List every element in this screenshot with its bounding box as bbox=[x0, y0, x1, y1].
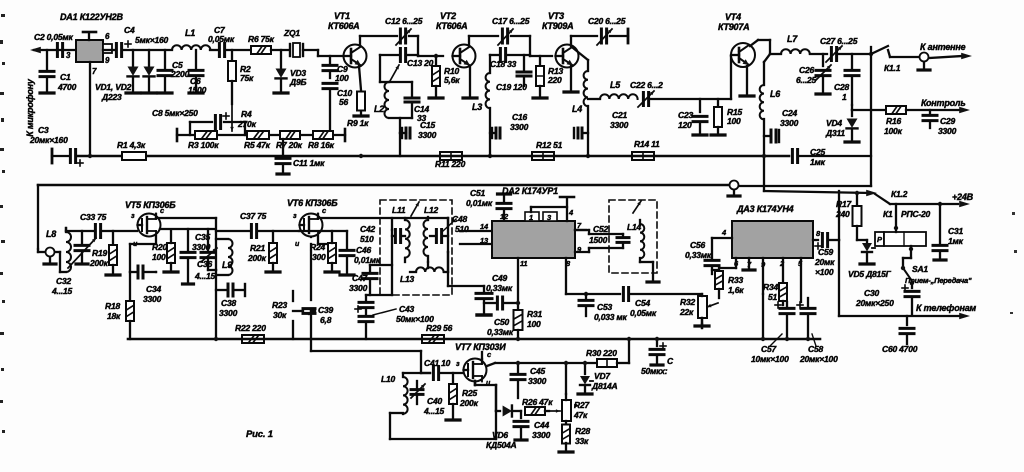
wire VT3 collector bbox=[571, 36, 597, 46]
resistor R32 bbox=[698, 296, 707, 318]
resistor R30 bbox=[597, 359, 617, 367]
resistor R10 bbox=[435, 56, 437, 64]
svg-text:С19 120: С19 120 bbox=[496, 82, 527, 92]
svg-text:3300: 3300 bbox=[610, 120, 629, 130]
wire VT5 source to R18 bbox=[129, 272, 131, 300]
svg-text:8: 8 bbox=[816, 229, 821, 238]
capacitor C18 bbox=[490, 54, 499, 56]
svg-text:6: 6 bbox=[105, 32, 110, 41]
wire C17 to VT3 base bbox=[511, 36, 552, 56]
wire C25 to K1 drop bbox=[800, 155, 871, 157]
svg-text:С20 6...25: С20 6...25 bbox=[588, 16, 626, 26]
capacitor C20 bbox=[600, 29, 603, 43]
svg-text:1,6к: 1,6к bbox=[728, 285, 744, 295]
svg-text:20мк×160: 20мк×160 bbox=[29, 135, 68, 145]
wire ZQ1 to VT1 base bbox=[303, 50, 344, 56]
capacitor C44 bbox=[520, 411, 522, 418]
capacitor C22 bbox=[642, 93, 645, 106]
svg-text:з: з bbox=[131, 213, 135, 220]
resistor R22 bbox=[242, 335, 264, 343]
svg-text:4: 4 bbox=[721, 228, 727, 237]
svg-text:100: 100 bbox=[335, 73, 349, 83]
svg-text:R4: R4 bbox=[241, 109, 252, 119]
wire K1.1 down to K1.2 bbox=[870, 47, 872, 186]
svg-text:Прием-„Передача": Прием-„Передача" bbox=[905, 276, 972, 285]
wire DA1 output bbox=[103, 49, 172, 51]
inductor L14 bbox=[640, 224, 644, 258]
svg-text:R3 100к: R3 100к bbox=[188, 140, 219, 150]
svg-text:VT1: VT1 bbox=[334, 11, 350, 21]
terminal К антенне bbox=[961, 53, 972, 60]
diode VD7 bbox=[584, 363, 586, 374]
svg-text:3: 3 bbox=[66, 51, 71, 60]
svg-text:R14 11: R14 11 bbox=[634, 139, 660, 149]
svg-text:R6 75к: R6 75к bbox=[248, 34, 275, 44]
wire VT1 collector bbox=[360, 36, 397, 46]
wire R32 down bbox=[701, 324, 703, 328]
svg-text:з: з bbox=[456, 361, 460, 368]
capacitor C14 bbox=[405, 97, 419, 100]
junction +24 C31 bbox=[938, 202, 942, 206]
resistor R21 bbox=[272, 231, 274, 242]
wire VT6 source to R23 bbox=[310, 237, 312, 300]
capacitor C15 bbox=[399, 118, 401, 133]
wire C39 node down bbox=[310, 311, 312, 351]
svg-text:К антенне: К антенне bbox=[920, 42, 966, 52]
capacitor C56 bbox=[711, 238, 713, 258]
tuning arrow L11 L12 bbox=[411, 202, 419, 216]
svg-text:4: 4 bbox=[568, 208, 574, 217]
svg-text:R19: R19 bbox=[92, 248, 107, 258]
svg-text:L12: L12 bbox=[424, 205, 439, 215]
svg-text:R5 47к: R5 47к bbox=[244, 140, 271, 150]
svg-text:L9: L9 bbox=[222, 260, 232, 270]
svg-text:L5: L5 bbox=[610, 80, 621, 90]
crystal ZQ1 bbox=[289, 44, 291, 56]
wire VT5 gate2 bbox=[160, 228, 214, 230]
svg-text:3300: 3300 bbox=[143, 294, 162, 304]
svg-text:R12 51: R12 51 bbox=[536, 140, 563, 150]
capacitor C48 bbox=[430, 235, 434, 237]
diode VD2 bbox=[148, 50, 150, 66]
svg-text:С50: С50 bbox=[494, 317, 509, 327]
resistor R12 bbox=[532, 152, 554, 160]
wire C59 riser bbox=[838, 191, 840, 240]
jack L8 input bbox=[46, 248, 55, 257]
wire VT7 drain bbox=[481, 352, 483, 363]
shield box L14 bbox=[609, 200, 657, 273]
svg-text:С12 6...25: С12 6...25 bbox=[385, 16, 423, 26]
resistor R16 bbox=[886, 106, 906, 114]
wire relay to SA1 bbox=[903, 246, 911, 268]
svg-text:240: 240 bbox=[835, 209, 850, 219]
capacitor C58 bbox=[797, 304, 803, 306]
svg-text:VT5 КП306Б: VT5 КП306Б bbox=[125, 200, 176, 210]
svg-text:VD6: VD6 bbox=[492, 430, 508, 440]
svg-text:R33: R33 bbox=[728, 275, 743, 285]
transistor VT3 bbox=[556, 45, 579, 68]
ground VT3 emitter bbox=[564, 90, 578, 93]
svg-text:L7: L7 bbox=[787, 34, 798, 44]
diode VD4 bbox=[851, 110, 853, 116]
svg-text:С17 6...25: С17 6...25 bbox=[492, 16, 530, 26]
svg-text:С11 1мк: С11 1мк bbox=[293, 158, 325, 168]
resistor R27 bbox=[562, 400, 571, 421]
svg-text:VT2: VT2 bbox=[440, 11, 456, 21]
svg-text:5,6к: 5,6к bbox=[444, 75, 460, 85]
capacitor C5 bbox=[164, 50, 166, 69]
svg-text:DA1 К122УН2В: DA1 К122УН2В bbox=[60, 12, 123, 22]
svg-text:VT6 КП306Б: VT6 КП306Б bbox=[287, 198, 338, 208]
svg-text:С16: С16 bbox=[512, 112, 527, 122]
svg-text:R23: R23 bbox=[272, 300, 287, 310]
wire VT4 emitter bbox=[746, 66, 748, 94]
svg-text:220: 220 bbox=[547, 75, 562, 85]
svg-text:Д223: Д223 bbox=[101, 92, 122, 102]
svg-text:3300: 3300 bbox=[418, 130, 437, 140]
variable capacitor C36 bbox=[207, 229, 209, 251]
svg-text:100: 100 bbox=[152, 252, 166, 262]
svg-text:КТ606А: КТ606А bbox=[328, 21, 359, 31]
capacitor C41 bbox=[432, 367, 435, 380]
wire pin8 down bbox=[565, 258, 567, 294]
wire VT6 drain bbox=[318, 214, 448, 218]
capacitor C10 bbox=[323, 82, 337, 85]
junction R27 drain bbox=[564, 361, 568, 365]
resistor R23 bbox=[292, 291, 294, 301]
svg-text:R31: R31 bbox=[527, 309, 542, 319]
junction C55 bus bbox=[655, 337, 659, 341]
wire to antenna bbox=[888, 50, 918, 57]
op-amp U DA1 bbox=[76, 40, 103, 62]
resistor R29 bbox=[422, 335, 444, 343]
capacitor C16 bbox=[490, 132, 494, 134]
svg-text:200к: 200к bbox=[89, 258, 109, 268]
capacitor C53 bbox=[584, 292, 588, 296]
wire C12 to VT2 base bbox=[409, 36, 443, 56]
wire main bus bbox=[78, 155, 440, 158]
wire R27 top bbox=[565, 363, 567, 394]
pin 4 DA2 bbox=[530, 207, 532, 212]
wire C7 to R6 bbox=[227, 49, 250, 51]
variable capacitor C40 bbox=[411, 388, 423, 391]
svg-text:С54: С54 bbox=[635, 298, 650, 308]
capacitor C51 bbox=[498, 192, 511, 195]
svg-text:С48: С48 bbox=[452, 214, 467, 224]
svg-text:18к: 18к bbox=[107, 311, 121, 321]
capacitor C34 bbox=[130, 271, 136, 273]
wire antenna arrow bbox=[929, 56, 962, 58]
resistor R11 bbox=[440, 152, 462, 160]
svg-text:L10: L10 bbox=[381, 374, 396, 384]
svg-text:33к: 33к bbox=[575, 436, 589, 446]
capacitor C28 bbox=[851, 54, 853, 68]
svg-text:VT3: VT3 bbox=[548, 11, 564, 21]
svg-text:R11 220: R11 220 bbox=[435, 159, 466, 169]
svg-text:КД504А: КД504А bbox=[486, 440, 517, 450]
svg-text:3300: 3300 bbox=[938, 126, 957, 136]
wire C28 to R16 bbox=[852, 105, 884, 110]
svg-text:С26: С26 bbox=[799, 65, 814, 75]
svg-text:L4: L4 bbox=[572, 104, 582, 114]
svg-text:6...25: 6...25 bbox=[796, 75, 817, 85]
paper specks right bbox=[574, 212, 1017, 407]
junction VT2 base bbox=[434, 54, 438, 58]
capacitor C29 bbox=[929, 110, 931, 113]
wire C33 to VT5 gate bbox=[103, 230, 137, 232]
transistor VT1 bbox=[344, 45, 367, 68]
svg-text:1500: 1500 bbox=[188, 85, 207, 95]
svg-text:5мк×160: 5мк×160 bbox=[135, 35, 169, 45]
inductor L3 bbox=[489, 55, 491, 73]
inductor L13 bbox=[416, 267, 444, 272]
wire L10 top bbox=[403, 372, 430, 374]
audio amp U DA3 bbox=[732, 221, 813, 258]
inductor L2 bbox=[379, 55, 381, 82]
transistor VT2 bbox=[453, 45, 476, 68]
svg-text:4...15: 4...15 bbox=[51, 286, 73, 296]
svg-text:9: 9 bbox=[105, 56, 110, 65]
svg-text:0,33мк: 0,33мк bbox=[486, 283, 513, 293]
svg-text:ZQ1: ZQ1 bbox=[283, 28, 300, 38]
wire +24 bus top bbox=[38, 184, 729, 187]
svg-text:С37 75: С37 75 bbox=[240, 211, 267, 221]
svg-text:С2 0,05мк: С2 0,05мк bbox=[34, 32, 73, 42]
wire VT5 drain bbox=[156, 214, 216, 218]
svg-text:3300: 3300 bbox=[349, 283, 368, 293]
svg-text:С24: С24 bbox=[782, 108, 797, 118]
svg-text:R30 220: R30 220 bbox=[586, 348, 617, 358]
svg-text:и: и bbox=[295, 241, 300, 248]
capacitor C54 bbox=[622, 288, 625, 301]
svg-text:R26 47к: R26 47к bbox=[522, 397, 553, 407]
wire relay contact line bbox=[764, 191, 870, 193]
svg-text:VT7 КП303И: VT7 КП303И bbox=[455, 342, 506, 352]
inductor L9 bbox=[216, 238, 228, 240]
svg-text:С44: С44 bbox=[534, 420, 549, 430]
svg-text:SA1: SA1 bbox=[912, 264, 928, 274]
wire +24 out bbox=[890, 203, 958, 205]
resistor R7 bbox=[280, 131, 300, 139]
svg-text:С4: С4 bbox=[124, 25, 135, 35]
svg-text:1мк: 1мк bbox=[948, 236, 964, 246]
svg-text:100: 100 bbox=[527, 319, 541, 329]
wire DA1 pin7 down bbox=[89, 62, 91, 156]
svg-text:4...15: 4...15 bbox=[423, 406, 445, 416]
diode VD1 bbox=[132, 50, 134, 66]
capacitor C13 bbox=[380, 54, 399, 56]
svg-text:30к: 30к bbox=[273, 310, 287, 320]
svg-text:К1.1: К1.1 bbox=[884, 63, 901, 73]
wire ground bus top section bbox=[52, 155, 68, 157]
svg-text:С45: С45 bbox=[530, 366, 545, 376]
svg-text:С56: С56 bbox=[690, 240, 705, 250]
capacitor C38 bbox=[216, 289, 226, 291]
wire bus right segment bbox=[440, 155, 789, 158]
svg-text:VT4: VT4 bbox=[725, 12, 741, 22]
variable capacitor C32 bbox=[75, 244, 89, 247]
svg-text:13: 13 bbox=[480, 236, 489, 245]
capacitor C4 bbox=[115, 44, 118, 57]
capacitor C33 bbox=[94, 225, 97, 238]
capacitor C57 bbox=[775, 304, 781, 306]
svg-text:С22 6...2: С22 6...2 bbox=[630, 80, 663, 90]
svg-text:20мк×250: 20мк×250 bbox=[855, 298, 894, 308]
resistor R4 bbox=[231, 104, 233, 131]
inductor L11 bbox=[405, 220, 410, 258]
svg-text:КТ606А: КТ606А bbox=[436, 21, 467, 31]
svg-text:L1: L1 bbox=[185, 28, 195, 38]
svg-text:С53: С53 bbox=[597, 302, 612, 312]
capacitor C12 bbox=[399, 29, 402, 43]
svg-text:75к: 75к bbox=[240, 73, 254, 83]
resistor R33 bbox=[735, 258, 737, 268]
svg-text:С42: С42 bbox=[360, 224, 375, 234]
svg-text:КТ907А: КТ907А bbox=[718, 22, 749, 32]
junction rail bus bbox=[214, 337, 218, 341]
svg-text:С28: С28 bbox=[834, 82, 849, 92]
inductor L6 bbox=[764, 54, 770, 62]
svg-text:6,8: 6,8 bbox=[320, 315, 332, 325]
svg-text:С29: С29 bbox=[940, 116, 955, 126]
svg-text:К телефонам: К телефонам bbox=[916, 303, 977, 313]
svg-text:2200: 2200 bbox=[170, 69, 190, 79]
capacitor C47 bbox=[370, 264, 392, 266]
inductor L12 bbox=[424, 220, 429, 256]
resistor R14 bbox=[632, 152, 654, 160]
svg-text:0,033 мк: 0,033 мк bbox=[594, 312, 628, 322]
junction C57 bus bbox=[785, 337, 789, 341]
wire L7 to C27 bbox=[810, 53, 827, 55]
svg-text:С40: С40 bbox=[427, 396, 442, 406]
wire pin9 bus bbox=[762, 294, 764, 339]
svg-text:0,33мк: 0,33мк bbox=[685, 250, 712, 260]
svg-text:12: 12 bbox=[500, 212, 509, 221]
resistor R31 bbox=[514, 310, 523, 330]
svg-text:С27 6...25: С27 6...25 bbox=[820, 36, 858, 46]
svg-text:VD5 Д815Г: VD5 Д815Г bbox=[848, 269, 892, 279]
svg-text:КТ909А: КТ909А bbox=[542, 21, 573, 31]
svg-text:С31: С31 bbox=[948, 226, 963, 236]
svg-text:С15: С15 bbox=[420, 120, 435, 130]
variable arrow L2 bbox=[390, 65, 399, 81]
svg-text:R25: R25 bbox=[462, 388, 477, 398]
svg-text:С39: С39 bbox=[318, 305, 333, 315]
terminal К телефонам bbox=[959, 313, 970, 320]
capacitor C46 bbox=[346, 231, 348, 248]
wire L11 feed bbox=[404, 218, 406, 220]
svg-text:4700: 4700 bbox=[57, 82, 77, 92]
resistor R13 bbox=[539, 56, 541, 64]
wire R30 up to bus bbox=[617, 339, 629, 363]
svg-text:51: 51 bbox=[768, 292, 778, 302]
svg-text:0,33мк: 0,33мк bbox=[487, 327, 514, 337]
wire left drop to L8 bbox=[37, 185, 39, 249]
svg-text:R21: R21 bbox=[250, 243, 265, 253]
resistor R8 bbox=[313, 131, 333, 139]
capacitor C1 bbox=[46, 50, 48, 70]
wire C22 to VT4 bbox=[651, 56, 731, 99]
svg-text:Д814А: Д814А bbox=[591, 381, 618, 391]
svg-text:R29 56: R29 56 bbox=[426, 323, 453, 333]
wire VT2 emitter bbox=[469, 66, 471, 96]
svg-text:3300: 3300 bbox=[510, 122, 529, 132]
junction DA1 pin7 bbox=[88, 154, 92, 158]
svg-text:К1.2: К1.2 bbox=[891, 189, 908, 199]
junction L6 rail bus bbox=[762, 154, 766, 158]
wire relay feed bbox=[895, 204, 897, 232]
wire mic input bbox=[34, 49, 76, 51]
wire C8 branch bbox=[190, 122, 245, 135]
svg-text:100к: 100к bbox=[884, 126, 903, 136]
svg-text:С34: С34 bbox=[146, 284, 161, 294]
wire C41 to gate bbox=[441, 372, 463, 374]
svg-text:РПС-20: РПС-20 bbox=[901, 209, 930, 219]
svg-text:С13 20: С13 20 bbox=[407, 58, 434, 68]
svg-text:С8 5мк×250: С8 5мк×250 bbox=[152, 108, 198, 118]
svg-text:С41 10: С41 10 bbox=[424, 358, 451, 368]
svg-text:10мк×100: 10мк×100 bbox=[751, 354, 789, 364]
svg-text:С: С bbox=[667, 356, 674, 366]
resistor R6 bbox=[251, 46, 271, 54]
svg-text:50мкх:: 50мкх: bbox=[641, 366, 668, 376]
wire audio out bbox=[566, 293, 586, 295]
svg-text:DA2 К174УР1: DA2 К174УР1 bbox=[502, 186, 558, 196]
wire to DA2 pin14 bbox=[460, 230, 492, 232]
resistor R20 bbox=[167, 243, 175, 263]
switch K1.1 bbox=[871, 46, 888, 54]
resistor R24 bbox=[328, 243, 336, 263]
ground R32 bbox=[701, 318, 703, 324]
transistor VT7 bbox=[464, 359, 487, 382]
svg-text:R20: R20 bbox=[152, 242, 167, 252]
svg-text:510: 510 bbox=[455, 224, 469, 234]
wire to DA2 pin13 bbox=[460, 243, 492, 245]
capacitor C19 bbox=[523, 55, 525, 70]
junction pin9 bus bbox=[761, 337, 765, 341]
resistor R15 bbox=[717, 99, 719, 106]
capacitor C52 bbox=[622, 234, 624, 237]
capacitor C7 bbox=[218, 44, 221, 57]
wire source loop bbox=[474, 381, 476, 385]
wire VT6 source bbox=[318, 236, 332, 244]
svg-text:ДА3 К174УН4: ДА3 К174УН4 bbox=[736, 204, 794, 214]
svg-text:R9 1к: R9 1к bbox=[347, 118, 369, 128]
svg-text:270к: 270к bbox=[237, 119, 257, 129]
ground L14 bbox=[640, 261, 653, 263]
svg-text:С30: С30 bbox=[864, 288, 879, 298]
capacitor C21 bbox=[584, 132, 588, 134]
svg-text:L6: L6 bbox=[770, 89, 781, 99]
svg-text:3300: 3300 bbox=[528, 376, 547, 386]
inductor L8 bbox=[55, 251, 60, 253]
svg-text:120: 120 bbox=[678, 120, 692, 130]
svg-text:3300: 3300 bbox=[532, 430, 551, 440]
wire osc feed bbox=[311, 351, 430, 373]
transformer shield box bbox=[380, 200, 452, 295]
capacitor C45 bbox=[517, 363, 519, 372]
svg-text:С32: С32 bbox=[56, 276, 71, 286]
resistor R19 bbox=[112, 231, 114, 244]
svg-text:С21: С21 bbox=[612, 110, 627, 120]
wire L10 bottom bbox=[390, 412, 403, 414]
op-amp U DA2 bbox=[492, 221, 575, 258]
svg-text:С59: С59 bbox=[818, 247, 833, 257]
resistor R2 bbox=[231, 50, 233, 60]
svg-text:R34: R34 bbox=[763, 282, 778, 292]
terminal +24В bbox=[959, 201, 970, 208]
capacitor C55 bbox=[656, 339, 658, 346]
